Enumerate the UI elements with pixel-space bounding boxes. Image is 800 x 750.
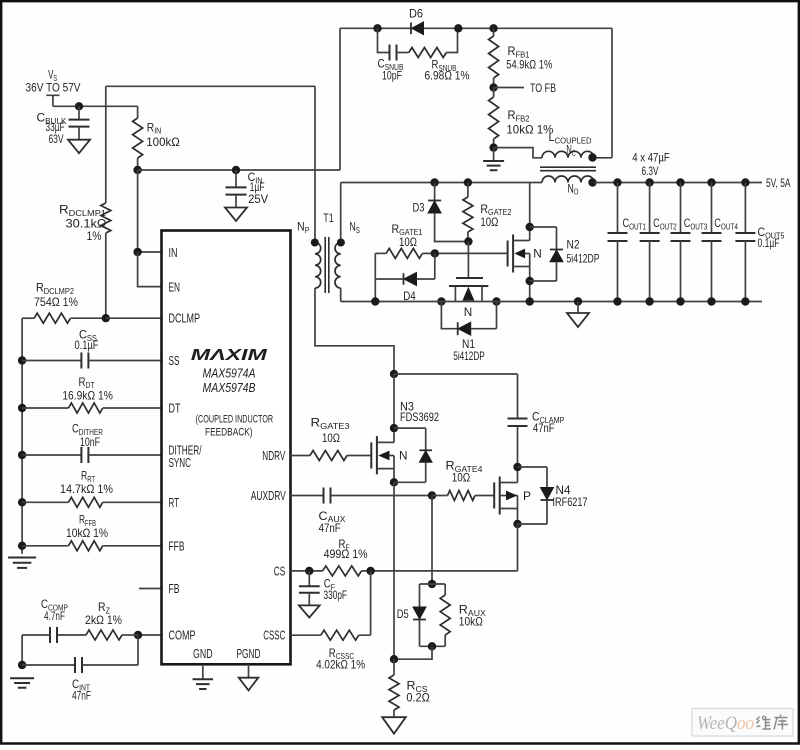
svg-text:GND: GND [193,646,213,661]
capacitor COUT1 [608,178,647,305]
svg-text:5i412DP: 5i412DP [567,252,600,266]
svg-text:MAX5974A: MAX5974A [203,367,256,381]
svg-text:10kΩ 1%: 10kΩ 1% [506,123,553,137]
svg-text:0.1µF: 0.1µF [758,236,780,250]
resistor RFB1 54.9k [489,24,553,87]
ground (RFB2) [483,143,504,170]
svg-text:FDS3692: FDS3692 [400,410,439,424]
diode D5 [397,580,446,647]
transistor N1 5i412DP [437,278,501,363]
pin FFB label [169,539,185,554]
transformer T1 secondary NS [335,183,360,302]
svg-text:SYNC: SYNC [169,455,192,470]
pin FB label [169,581,180,596]
ground (left bus) [8,558,36,568]
svg-text:6.3V: 6.3V [642,164,659,178]
pin PGND label [237,646,261,661]
svg-text:MAX5974B: MAX5974B [203,381,256,395]
svg-text:COMP: COMP [169,628,196,643]
svg-text:10nF: 10nF [80,435,100,449]
transistor N4 IRF6217 [494,463,588,528]
ground (RCS) [382,717,406,734]
svg-text:WeeQoo: WeeQoo [697,714,754,734]
wire EN [138,252,162,287]
inductor LCOUPLED winding NO [542,176,597,197]
svg-text:CS: CS [274,564,286,579]
svg-text:10Ω: 10Ω [399,235,417,249]
pin AUXDRV label [251,488,286,503]
svg-text:0.1µF: 0.1µF [75,338,99,352]
capacitor COUT3 [671,178,708,305]
pin CS label [274,564,286,579]
pin NDRV label [262,448,285,463]
resistor RCS 0.2ohm [389,655,430,717]
wire N4 source to CS [517,524,519,571]
svg-text:10Ω: 10Ω [480,215,498,229]
svg-text:5i412DP: 5i412DP [453,349,485,363]
svg-text:DCLMP: DCLMP [169,311,201,326]
wire NP bottom to clamp [390,370,518,378]
resistor RRT 14.7k [18,469,162,508]
svg-text:TO FB: TO FB [530,81,556,95]
svg-text:10kΩ 1%: 10kΩ 1% [66,526,108,540]
inductor LCOUPLED core [540,167,596,171]
resistor RGATE1 10ohm [375,222,507,259]
capacitor CINT 47nF [18,635,138,703]
node TO FB tap [489,81,556,95]
svg-text:N: N [464,305,473,319]
svg-text:4.7nF: 4.7nF [44,609,65,623]
resistor RDT 16.9k [18,375,162,413]
svg-text:36V TO 57V: 36V TO 57V [26,83,81,95]
svg-text:54.9kΩ 1%: 54.9kΩ 1% [506,58,552,72]
svg-text:DT: DT [169,401,181,416]
wire IN [133,170,161,256]
resistor RCSSC 4.02k [291,571,371,672]
wire FB stub [139,588,162,590]
watermark box [692,709,793,737]
svg-text:SS: SS [169,353,180,368]
svg-text:1%: 1% [87,229,102,243]
svg-text:PGND: PGND [237,646,261,661]
svg-text:IRF6217: IRF6217 [553,495,588,509]
svg-text:100kΩ: 100kΩ [146,135,180,149]
ground GND pin [193,664,214,689]
pin EN label [169,280,181,295]
svg-text:63V: 63V [49,132,64,146]
svg-text:(COUPLED INDUCTOR: (COUPLED INDUCTOR [196,414,274,426]
pin RT label [169,495,180,510]
svg-text:330pF: 330pF [324,588,348,602]
resistor RGATE2 10ohm [463,178,512,245]
svg-text:N2: N2 [567,238,580,252]
capacitor CCOMP 4.7nF [22,597,86,643]
svg-text:5V, 5A: 5V, 5A [766,176,791,190]
diode D6 [409,7,424,35]
svg-text:CSSC: CSSC [263,628,285,643]
diode D3 [413,178,469,241]
svg-text:ΜΛΧΙΜ: ΜΛΧΙΜ [191,347,269,364]
svg-text:IN: IN [169,245,178,260]
diode D4 [375,253,435,303]
svg-text:FB: FB [169,581,180,596]
resistor RAUX 10k [440,584,486,646]
wire AUXDRV to D5 [431,496,433,585]
capacitor COUT4 [702,178,739,305]
transistor N3 FDS3692 [371,374,439,486]
transformer T1 core [323,211,334,293]
pin CSSC label [263,628,285,643]
svg-text:6.98Ω 1%: 6.98Ω 1% [425,69,470,83]
svg-text:D3: D3 [413,201,425,215]
inductor LCOUPLED winding NC [494,130,612,162]
svg-text:47nF: 47nF [319,521,341,535]
capacitor COUT2 [640,178,678,305]
svg-text:N: N [399,449,408,463]
wire left ground bus [21,318,23,554]
capacitor CCLAMP 47nF [508,374,565,467]
pin GND label [193,646,213,661]
pin DCLMP label [169,311,201,326]
svg-text:4 x 47µF: 4 x 47µF [632,150,670,164]
transformer T1 primary NP [297,86,394,374]
ground PGND pin [239,664,259,690]
wire D5 bottom to RCS node [394,642,436,659]
resistor RF 499ohm [323,537,518,576]
wire CS [291,567,323,575]
resistor RFFB 10k [18,513,162,551]
pin IN label [169,245,178,260]
resistor RIN 100k [133,106,180,170]
svg-text:AUXDRV: AUXDRV [251,488,286,503]
svg-text:47nF: 47nF [533,421,555,435]
svg-text:NDRV: NDRV [262,448,285,463]
svg-text:FEEDBACK): FEEDBACK) [205,427,253,439]
wire N1 gate [467,242,469,279]
capacitor CSS 0.1uF [18,328,162,369]
svg-text:16.9kΩ 1%: 16.9kΩ 1% [62,388,113,402]
capacitor CIN 1uF 25V [225,166,268,221]
wire secondary rail [341,182,762,184]
svg-text:10kΩ: 10kΩ [459,615,483,629]
resistor RGATE3 10ohm [291,416,372,461]
capacitor CSNUB 10pF [373,24,404,82]
pin SS label [169,353,180,368]
node VS input terminal [26,68,138,107]
svg-text:0.2Ω: 0.2Ω [406,691,430,705]
wire VS top rail to NP [106,85,315,87]
svg-text:25V: 25V [248,192,268,206]
resistor RDCLMP1 30.1k [59,86,111,318]
svg-text:754Ω 1%: 754Ω 1% [34,295,78,309]
wire RIN-bottom to snubber riser [133,166,340,174]
svg-text:4.02kΩ 1%: 4.02kΩ 1% [316,658,365,672]
wire DCLMP [102,314,162,322]
ground (COMP network) [10,678,34,688]
capacitor CF 330pF [299,571,347,618]
pin DT label [169,401,181,416]
transistor N2 5i412DP [508,183,600,302]
svg-text:EN: EN [169,280,181,295]
node output 5V,5A [766,176,791,190]
svg-text:FFB: FFB [169,539,185,554]
svg-text:D5: D5 [397,607,409,621]
svg-text:T1: T1 [323,211,334,225]
resistor RDCLMP2 754ohm [22,281,106,324]
svg-text:14.7kΩ 1%: 14.7kΩ 1% [60,482,113,496]
capacitor CDITHER 10nF [18,422,162,464]
wire N3 source to RCS [393,482,395,659]
op-amp U1 MAX5974A/MAX5974B controller IC [162,231,291,665]
capacitor COUT5 0.1uF [735,178,785,305]
ground (secondary) [567,297,589,327]
wire secondary bottom rail [341,297,762,305]
svg-text:P: P [523,489,531,503]
label output capacitance [632,150,670,178]
wire snubber riser [339,28,341,170]
resistor RGATE4 10ohm [428,459,494,501]
pin COMP label [169,628,196,643]
resistor RZ 2k [85,600,138,640]
svg-text:10Ω: 10Ω [322,431,340,445]
svg-text:N: N [533,247,542,261]
capacitor CBULK 33uF 63V [37,102,91,153]
capacitor CAUX 47nF [291,488,433,535]
wire COMP [134,631,162,639]
resistor RFB2 10k [489,88,554,148]
wire NC to top line [611,28,613,158]
svg-text:2kΩ 1%: 2kΩ 1% [85,613,122,627]
pin DITHER/SYNC label [169,443,202,471]
svg-text:47nF: 47nF [72,689,91,703]
svg-text:D6: D6 [409,7,423,21]
svg-text:499Ω 1%: 499Ω 1% [324,547,368,561]
svg-text:10Ω: 10Ω [452,470,471,484]
svg-text:10pF: 10pF [382,69,402,83]
resistor RSNUB 6.98ohm [397,24,470,82]
svg-text:RT: RT [169,495,180,510]
wire snubber top line [340,27,612,29]
